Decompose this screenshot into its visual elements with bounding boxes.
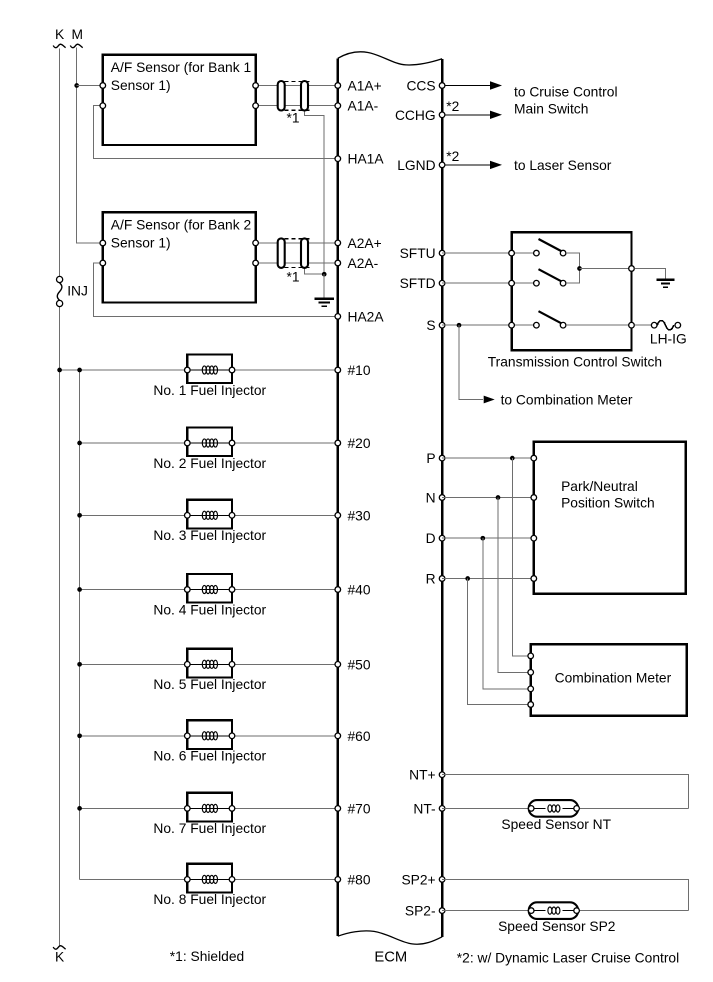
terminal A/F B1 pin4 bbox=[253, 103, 259, 109]
wire injector #60 row bbox=[80, 735, 338, 737]
wire injector #10 row bbox=[60, 369, 338, 371]
terminal A/F B1 pin3 bbox=[253, 83, 259, 89]
svg-text:A/F Sensor (for Bank 2: A/F Sensor (for Bank 2 bbox=[111, 217, 251, 232]
wire SFTU inside bbox=[512, 252, 534, 254]
terminal injector L6 pin2 bbox=[229, 733, 235, 739]
terminal ECM #40 bbox=[335, 587, 341, 593]
sensor Speed Sensor SP2 body bbox=[529, 902, 579, 919]
terminal A/F B2 pin4 bbox=[253, 260, 259, 266]
svg-text:D: D bbox=[426, 531, 436, 546]
terminal injector L5 pin2 bbox=[229, 662, 235, 668]
wire drain to ground bbox=[323, 274, 325, 299]
wire shield drain B2 bbox=[305, 263, 325, 274]
svg-text:NT-: NT- bbox=[413, 801, 435, 816]
wire A/F B2 ground return to HA2A bbox=[94, 263, 338, 316]
wire TCS S to LH-IG bbox=[634, 324, 651, 326]
terminal A/F B2 pin1 bbox=[100, 240, 106, 246]
svg-text:ECM: ECM bbox=[374, 950, 407, 966]
svg-text:Speed Sensor SP2: Speed Sensor SP2 bbox=[498, 919, 615, 934]
sensor Speed Sensor NT body bbox=[529, 800, 579, 817]
wire Speed Sensor SP2 - line bbox=[442, 910, 689, 912]
svg-text:to Cruise Control: to Cruise Control bbox=[514, 84, 618, 99]
inductor coil L4 bbox=[187, 585, 232, 593]
wire D to PNP switch bbox=[442, 537, 534, 539]
wire CCS with arrow bbox=[445, 85, 491, 87]
terminal Speed Sensor SP2 pin1 bbox=[528, 908, 534, 914]
wire TCS to ground bbox=[634, 269, 665, 280]
fuel injector L5 box bbox=[187, 649, 232, 678]
wire A1A- bbox=[256, 105, 338, 107]
terminal ECM A1A+ bbox=[335, 83, 341, 89]
terminal ECM CCHG bbox=[439, 112, 445, 118]
svg-text:to Laser Sensor: to Laser Sensor bbox=[514, 158, 612, 173]
svg-text:CCS: CCS bbox=[406, 79, 435, 94]
park/neutral position switch box bbox=[534, 442, 686, 594]
svg-text:No. 6 Fuel Injector: No. 6 Fuel Injector bbox=[153, 749, 266, 764]
svg-text:No. 4 Fuel Injector: No. 4 Fuel Injector bbox=[153, 602, 266, 617]
svg-text:LH-IG: LH-IG bbox=[650, 332, 687, 347]
wire SW1 output bbox=[566, 253, 580, 268]
svg-text:SFTU: SFTU bbox=[400, 246, 436, 261]
inductor coil L6 bbox=[187, 732, 232, 740]
junction bus to injector #50 bbox=[77, 662, 82, 667]
svg-text:*2: *2 bbox=[446, 99, 459, 114]
wire shield drain B1 bbox=[305, 106, 325, 275]
shield capsule B1 left bbox=[278, 81, 285, 111]
wire A1A+ bbox=[256, 85, 338, 87]
junction N branch bbox=[496, 495, 501, 500]
connector INJ bbox=[57, 276, 88, 306]
terminal ECM #80 bbox=[335, 877, 341, 883]
shield *1 for A/F B1 (dashed) bbox=[285, 81, 313, 110]
wire K bus lower segment bbox=[59, 307, 61, 947]
transmission control switch box bbox=[512, 232, 632, 350]
svg-text:LGND: LGND bbox=[397, 158, 435, 173]
wire A2A+ bbox=[256, 242, 338, 244]
svg-text:SFTD: SFTD bbox=[400, 276, 436, 291]
wire injector #50 row bbox=[80, 663, 338, 665]
inductor coil L7 bbox=[187, 804, 232, 812]
svg-text:No. 2 Fuel Injector: No. 2 Fuel Injector bbox=[153, 456, 266, 471]
terminal injector L1 pin1 bbox=[185, 367, 191, 373]
terminal A/F B2 pin3 bbox=[253, 240, 259, 246]
terminal combination meter pin 1 bbox=[528, 653, 534, 659]
terminal ECM NT+ bbox=[439, 772, 445, 778]
terminal ECM CCS bbox=[439, 83, 445, 89]
fuel injector L3 box bbox=[187, 500, 232, 529]
switch SW3 (S) bbox=[534, 311, 566, 328]
inductor coil L2 bbox=[187, 439, 232, 447]
svg-text:No. 1 Fuel Injector: No. 1 Fuel Injector bbox=[153, 383, 266, 398]
junction P branch bbox=[510, 456, 515, 461]
wire Speed Sensor NT + loop bbox=[442, 775, 689, 809]
terminal A/F B1 pin2 bbox=[100, 103, 106, 109]
terminal Speed Sensor NT pin1 bbox=[528, 806, 534, 812]
shield *1 for A/F B2 (dashed) bbox=[285, 239, 313, 268]
terminal injector L7 pin1 bbox=[185, 806, 191, 812]
shield capsule B1 right bbox=[301, 81, 308, 111]
terminal ECM #70 bbox=[335, 806, 341, 812]
terminal ECM HA2A bbox=[335, 314, 341, 320]
svg-text:Speed Sensor NT: Speed Sensor NT bbox=[501, 817, 611, 832]
wire to TCS ground pin bbox=[580, 268, 632, 270]
wire SFTD to TCS bbox=[442, 282, 512, 284]
terminal PNP pin D bbox=[531, 535, 537, 541]
wire A2A- bbox=[256, 262, 338, 264]
terminal TCS left pin SFTU bbox=[509, 250, 515, 256]
terminal ECM #10 bbox=[335, 367, 341, 373]
ECM bottom break (wavy) bbox=[338, 931, 442, 944]
wire S to combination meter (arrow) bbox=[459, 325, 495, 403]
terminal combination meter pin 4 bbox=[528, 702, 534, 708]
terminal ECM D bbox=[439, 535, 445, 541]
terminal A/F B2 pin2 bbox=[100, 260, 106, 266]
svg-text:#60: #60 bbox=[348, 729, 371, 744]
svg-text:#10: #10 bbox=[348, 363, 371, 378]
junction SW outputs bbox=[577, 266, 582, 271]
terminal injector L8 pin1 bbox=[185, 877, 191, 883]
svg-text:A/F Sensor (for Bank 1: A/F Sensor (for Bank 1 bbox=[111, 60, 251, 75]
fuel injector L4 box bbox=[187, 574, 232, 603]
ECM left edge bbox=[337, 58, 339, 936]
svg-text:SP2-: SP2- bbox=[405, 904, 436, 919]
wire injector #70 row bbox=[80, 807, 338, 809]
svg-text:HA2A: HA2A bbox=[348, 309, 385, 324]
wire A/F B1 ground return to HA1A bbox=[94, 106, 338, 159]
svg-text:*1: Shielded: *1: Shielded bbox=[170, 949, 244, 964]
shield capsule B2 right bbox=[301, 238, 308, 268]
terminal PNP pin N bbox=[531, 495, 537, 501]
wire injector #30 row bbox=[80, 514, 338, 516]
terminal ECM SP2+ bbox=[439, 877, 445, 883]
svg-text:CCHG: CCHG bbox=[395, 108, 436, 123]
wire injector #40 row bbox=[80, 589, 338, 591]
svg-text:*1: *1 bbox=[286, 111, 299, 126]
wire CCHG with arrow bbox=[445, 114, 491, 116]
node M (top) bbox=[70, 27, 83, 48]
wire K bus upper segment bbox=[59, 49, 61, 277]
svg-text:INJ: INJ bbox=[67, 283, 88, 298]
junction bus to injector #60 bbox=[77, 733, 82, 738]
terminal ECM A2A+ bbox=[335, 240, 341, 246]
terminal ECM NT- bbox=[439, 806, 445, 812]
wire SFTD inside bbox=[512, 282, 534, 284]
terminal ECM S bbox=[439, 322, 445, 328]
wire R to combination meter bbox=[468, 579, 531, 705]
wire Speed Sensor NT - line bbox=[442, 807, 689, 809]
wire injector #80 row bbox=[80, 878, 338, 880]
terminal ECM R bbox=[439, 576, 445, 582]
wire SW2 output bbox=[566, 269, 580, 284]
wire R to PNP switch bbox=[442, 578, 534, 580]
terminal injector L1 pin2 bbox=[229, 367, 235, 373]
junction bus to injector #10 bbox=[77, 368, 82, 373]
svg-text:*1: *1 bbox=[286, 270, 299, 285]
svg-text:#40: #40 bbox=[348, 583, 371, 598]
svg-text:K: K bbox=[55, 950, 65, 965]
terminal PNP pin R bbox=[531, 576, 537, 582]
terminal ECM #50 bbox=[335, 662, 341, 668]
terminal ECM A1A- bbox=[335, 103, 341, 109]
terminal injector L2 pin2 bbox=[229, 440, 235, 446]
switch SW1 (SFTU) bbox=[534, 239, 566, 256]
svg-text:S: S bbox=[426, 318, 435, 333]
wire SW3 output bbox=[566, 324, 632, 326]
wire SFTU to TCS bbox=[442, 252, 512, 254]
terminal TCS ground pin bbox=[629, 266, 635, 272]
svg-text:Sensor 1): Sensor 1) bbox=[111, 235, 171, 250]
junction bus to injector #70 bbox=[77, 806, 82, 811]
terminal TCS right pin S bbox=[629, 322, 635, 328]
A/F sensor B2S1 box bbox=[103, 212, 256, 302]
wire N to combination meter bbox=[498, 498, 531, 673]
terminal Speed Sensor NT pin2 bbox=[574, 806, 580, 812]
wire P to combination meter bbox=[512, 458, 530, 656]
terminal ECM SP2- bbox=[439, 908, 445, 914]
svg-text:No. 3 Fuel Injector: No. 3 Fuel Injector bbox=[153, 528, 266, 543]
junction R branch bbox=[465, 576, 470, 581]
ground (TCS) bbox=[656, 279, 674, 281]
svg-text:Park/Neutral: Park/Neutral bbox=[561, 479, 638, 494]
fuse coil LH-IG bbox=[651, 321, 680, 330]
terminal ECM HA1A bbox=[335, 156, 341, 162]
svg-text:Main Switch: Main Switch bbox=[514, 101, 588, 116]
node K (bottom) bbox=[53, 946, 65, 965]
wire injector #20 row bbox=[80, 442, 338, 444]
svg-text:P: P bbox=[426, 451, 435, 466]
terminal ECM #30 bbox=[335, 513, 341, 519]
fuel injector L7 box bbox=[187, 793, 232, 822]
terminal injector L4 pin2 bbox=[229, 587, 235, 593]
svg-text:K: K bbox=[55, 27, 65, 42]
svg-text:N: N bbox=[426, 491, 436, 506]
terminal injector L4 pin1 bbox=[185, 587, 191, 593]
terminal injector L7 pin2 bbox=[229, 806, 235, 812]
terminal TCS left pin SFTD bbox=[509, 280, 515, 286]
terminal ECM #60 bbox=[335, 733, 341, 739]
terminal A/F B1 pin1 bbox=[100, 83, 106, 89]
terminal injector L3 pin1 bbox=[185, 513, 191, 519]
ECM top break (wavy) bbox=[338, 52, 442, 65]
wire M bus bbox=[77, 48, 103, 244]
fuel injector L8 box bbox=[187, 864, 232, 893]
terminal Speed Sensor SP2 pin2 bbox=[574, 908, 580, 914]
wire LGND with arrow bbox=[445, 164, 491, 166]
terminal injector L2 pin1 bbox=[185, 440, 191, 446]
svg-text:No. 7 Fuel Injector: No. 7 Fuel Injector bbox=[153, 821, 266, 836]
wire injector supply bus bbox=[79, 370, 81, 879]
terminal combination meter pin 3 bbox=[528, 686, 534, 692]
svg-text:NT+: NT+ bbox=[409, 768, 435, 783]
ECM right edge bbox=[441, 59, 443, 937]
junction M to Bank1 bbox=[74, 83, 79, 88]
terminal combination meter pin 2 bbox=[528, 670, 534, 676]
terminal PNP pin P bbox=[531, 455, 537, 461]
junction shield drains bbox=[322, 272, 327, 277]
svg-text:A1A+: A1A+ bbox=[348, 79, 382, 94]
terminal ECM A2A- bbox=[335, 260, 341, 266]
wire S inside bbox=[512, 324, 534, 326]
svg-text:*2: *2 bbox=[446, 149, 459, 164]
inductor coil L8 bbox=[187, 875, 232, 883]
wire N to PNP switch bbox=[442, 497, 534, 499]
svg-text:No. 5 Fuel Injector: No. 5 Fuel Injector bbox=[153, 677, 266, 692]
wire P to PNP switch bbox=[442, 457, 534, 459]
svg-text:#70: #70 bbox=[348, 801, 371, 816]
svg-text:A1A-: A1A- bbox=[348, 99, 379, 114]
svg-text:#80: #80 bbox=[348, 872, 371, 887]
fuel injector L2 box bbox=[187, 427, 232, 456]
svg-text:Combination Meter: Combination Meter bbox=[555, 671, 672, 686]
terminal injector L5 pin1 bbox=[185, 662, 191, 668]
junction bus to injector #20 bbox=[77, 441, 82, 446]
label to Cruise Control Main Switch bbox=[514, 84, 618, 116]
wire S to TCS bbox=[442, 324, 512, 326]
junction bus to injector #30 bbox=[77, 513, 82, 518]
A/F sensor B1S1 box bbox=[103, 55, 256, 145]
terminal TCS left pin S bbox=[509, 322, 515, 328]
shield capsule B2 left bbox=[278, 238, 285, 268]
junction S branch bbox=[457, 323, 462, 328]
terminal injector L3 pin2 bbox=[229, 513, 235, 519]
svg-text:HA1A: HA1A bbox=[348, 152, 385, 167]
svg-text:Sensor 1): Sensor 1) bbox=[111, 78, 171, 93]
terminal ECM N bbox=[439, 495, 445, 501]
svg-text:M: M bbox=[71, 27, 83, 42]
fuel injector L1 box bbox=[187, 354, 232, 383]
terminal ECM LGND bbox=[439, 162, 445, 168]
svg-text:#50: #50 bbox=[348, 657, 371, 672]
svg-text:*2: w/ Dynamic Laser Cruise Co: *2: w/ Dynamic Laser Cruise Control bbox=[457, 951, 679, 966]
inductor coil L3 bbox=[187, 511, 232, 519]
node K (top) bbox=[53, 27, 65, 48]
switch SW2 (SFTD) bbox=[534, 269, 566, 286]
terminal ECM SFTU bbox=[439, 250, 445, 256]
svg-text:#30: #30 bbox=[348, 508, 371, 523]
svg-text:SP2+: SP2+ bbox=[401, 872, 435, 887]
svg-text:to Combination Meter: to Combination Meter bbox=[501, 393, 633, 408]
terminal injector L8 pin2 bbox=[229, 877, 235, 883]
wire M to A/F B1 + terminal bbox=[77, 85, 103, 87]
junction K to injector bus bbox=[57, 368, 62, 373]
svg-text:#20: #20 bbox=[348, 436, 371, 451]
combination meter box bbox=[531, 644, 687, 715]
svg-text:A2A+: A2A+ bbox=[348, 236, 382, 251]
terminal ECM P bbox=[439, 455, 445, 461]
fuel injector L6 box bbox=[187, 720, 232, 749]
terminal injector L6 pin1 bbox=[185, 733, 191, 739]
svg-text:Position Switch: Position Switch bbox=[561, 496, 655, 511]
terminal ECM #20 bbox=[335, 440, 341, 446]
wire Speed Sensor SP2 + loop bbox=[442, 879, 689, 910]
svg-text:A2A-: A2A- bbox=[348, 256, 379, 271]
inductor coil L1 bbox=[187, 366, 232, 374]
svg-text:No. 8 Fuel Injector: No. 8 Fuel Injector bbox=[153, 892, 266, 907]
ground (shield) bbox=[315, 298, 334, 300]
terminal ECM SFTD bbox=[439, 280, 445, 286]
svg-text:Transmission Control Switch: Transmission Control Switch bbox=[488, 355, 662, 370]
svg-text:R: R bbox=[426, 572, 436, 587]
inductor coil L5 bbox=[187, 660, 232, 668]
wire D to combination meter bbox=[483, 538, 531, 689]
junction bus to injector #40 bbox=[77, 587, 82, 592]
junction D branch bbox=[480, 536, 485, 541]
